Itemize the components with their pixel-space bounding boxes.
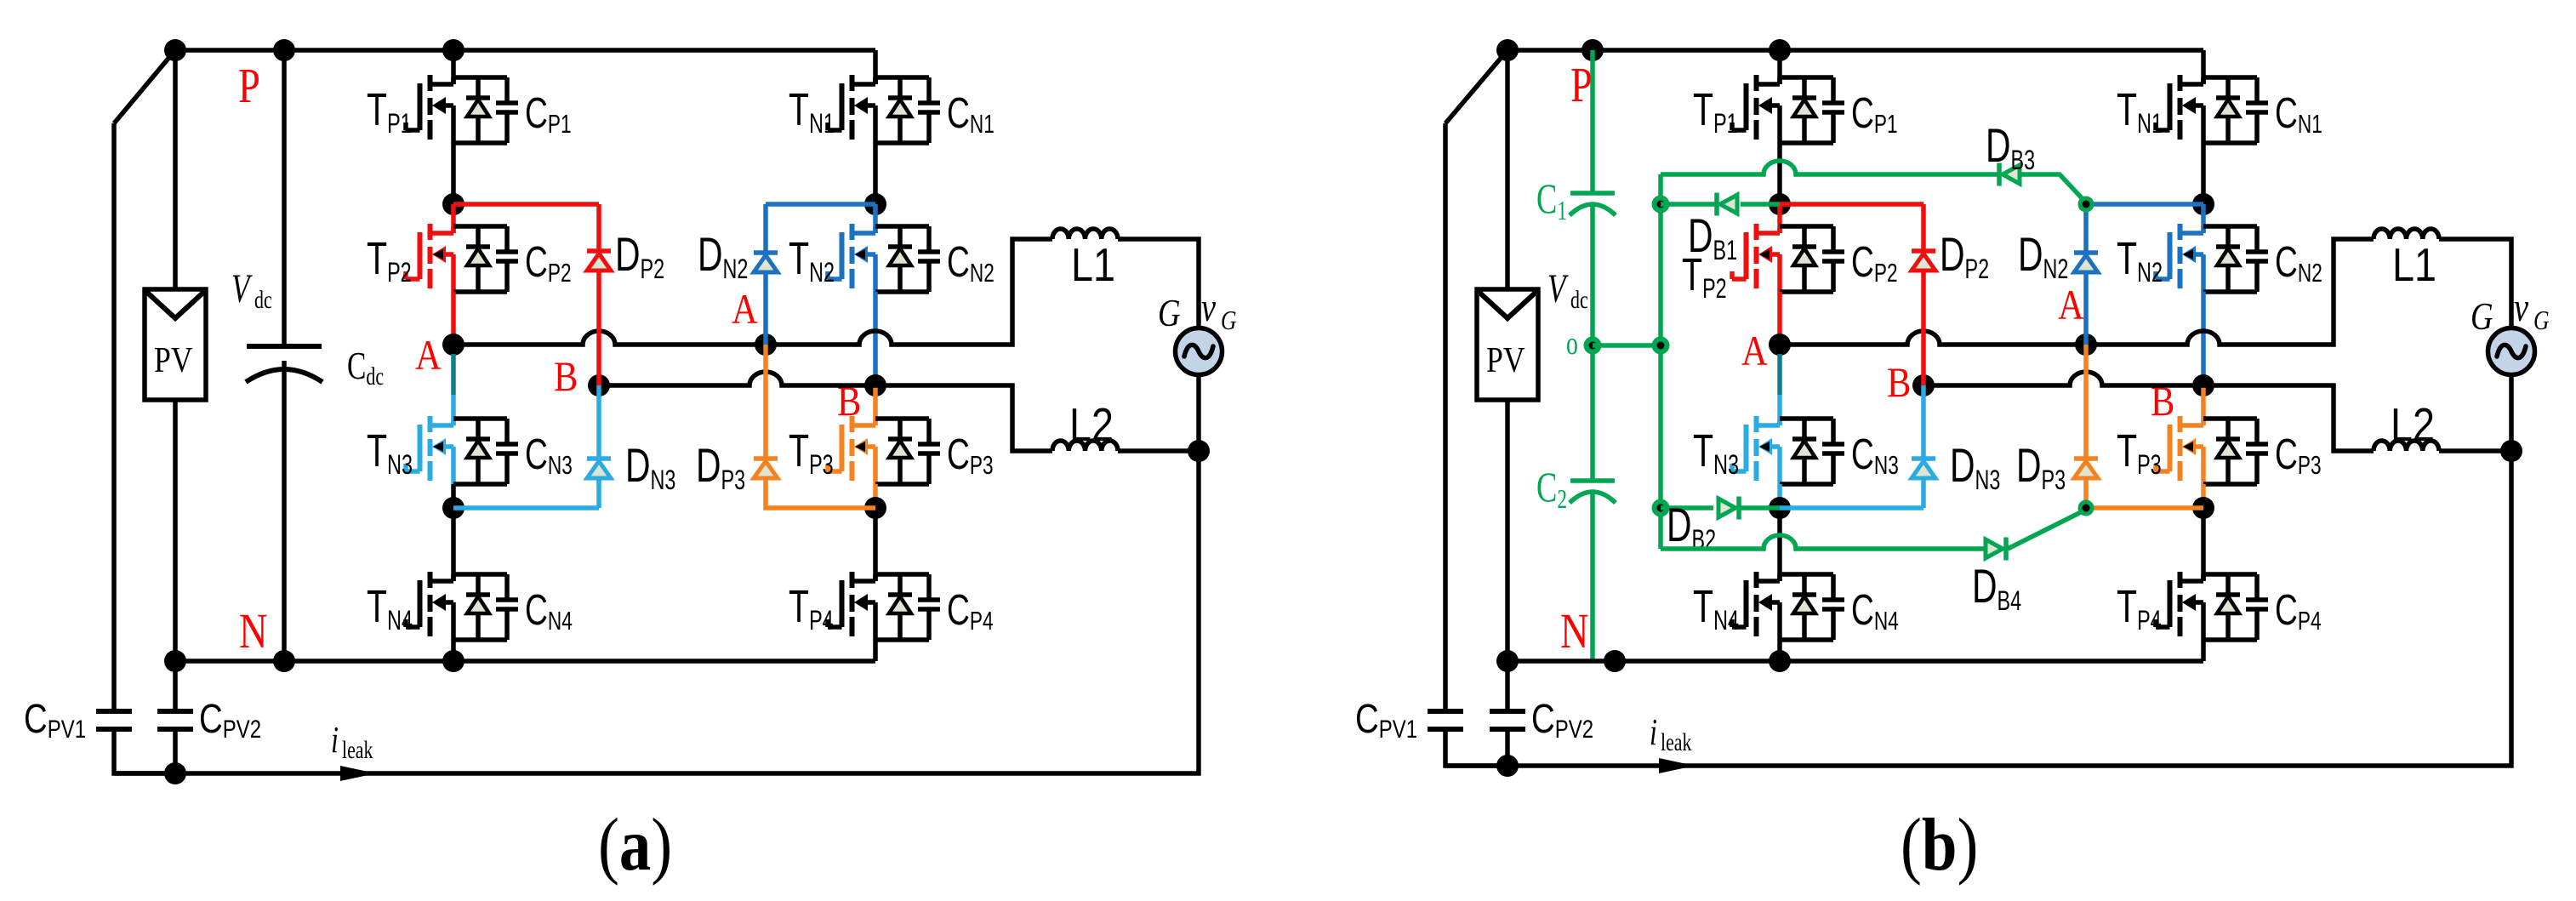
wire T_P1 drain (b) <box>1777 50 1782 84</box>
wire D_P2 to B (red) (a) <box>596 271 601 385</box>
svg-text:leak: leak <box>1661 728 1692 756</box>
wire T_N1 drain (a) <box>873 77 878 84</box>
wire T_P2 source to A (red) (a) <box>451 292 456 345</box>
wire T_N3 source to node (a) <box>451 484 456 508</box>
wire D_N2 branch (blue) (a) <box>766 202 875 207</box>
svg-text:N: N <box>239 604 268 659</box>
node A-rail at D junction (a) <box>755 334 777 356</box>
node B left (a) <box>588 374 610 396</box>
wire L2 to vG junction (a) <box>1118 448 1199 453</box>
diode D_N2 (b) <box>2018 229 2098 284</box>
svg-text:V: V <box>1547 267 1569 312</box>
svg-text:V: V <box>231 267 253 312</box>
transistor TN3 (a) <box>367 416 453 484</box>
body diode of TP1 (a) <box>466 77 490 143</box>
node N at T column (a) <box>442 650 464 672</box>
wire clamp bus vertical (b) <box>1658 174 1663 549</box>
transistor TP3 (b) <box>2117 416 2203 484</box>
body diode of TN4 (b) <box>1792 574 1816 640</box>
transistor TP1 (a) <box>367 75 453 143</box>
capacitor C_PV1 (a) <box>24 697 132 744</box>
svg-text:dc: dc <box>1570 286 1588 314</box>
wire A to T_N3 teal overlap (a) <box>451 354 456 395</box>
capacitor CP4 (b) <box>2246 574 2322 640</box>
svg-text:o: o <box>1566 326 1578 362</box>
wire cell frame TP1 (a) <box>453 77 507 143</box>
wire T_P4 drain (b) <box>2201 508 2206 581</box>
capacitor C1 (b) <box>1536 176 1616 226</box>
wire D_N2 to A (blue) (b) <box>2083 272 2089 345</box>
body diode of TP1 (b) <box>1792 77 1816 143</box>
diode D_N2 (a) <box>698 229 778 284</box>
wire rail B to L2 (a) <box>599 372 1052 451</box>
svg-text:i: i <box>331 720 339 761</box>
capacitor CN4 (b) <box>1822 574 1899 640</box>
wire cell frame TN2 (a) <box>875 226 929 292</box>
wire T_N4 source to N (a) <box>451 640 456 661</box>
capacitor CN3 (b) <box>1822 419 1899 484</box>
wire node o to bus (b) <box>1593 343 1661 348</box>
wire cell frame TP4 (a) <box>875 574 929 640</box>
wire cell frame TP3 (b) <box>2203 419 2257 484</box>
transistor TP3 (a) <box>789 416 875 484</box>
source v_G (b) <box>2488 328 2535 375</box>
wire D_P3 branch (orange) (a) <box>763 345 768 457</box>
svg-text:A: A <box>2058 282 2084 329</box>
capacitor C_dc (a) <box>246 344 384 391</box>
svg-text:i: i <box>1650 712 1657 753</box>
svg-text:v: v <box>1201 285 1217 330</box>
wire cell frame TP2 (a) <box>453 226 507 292</box>
wire D_P3 branch (orange) (b) <box>2083 345 2089 457</box>
transistor TN1 (a) <box>789 75 875 143</box>
node B left (b) <box>1912 374 1935 396</box>
capacitor CN2 (b) <box>2246 226 2322 292</box>
wire D_N3 branch (cyan) (a) <box>453 478 599 508</box>
capacitor CP1 (b) <box>1822 77 1898 143</box>
wire PV to N rail (b) <box>1505 400 1510 661</box>
svg-text:PV: PV <box>154 340 193 379</box>
wire D_N3 branch (cyan) (b) <box>1780 478 1923 508</box>
node P (a) <box>273 39 295 61</box>
transistor TN2 (b) <box>2117 224 2203 292</box>
wire T_N1 source to node (a) <box>873 143 878 204</box>
body diode of TP3 (b) <box>2216 419 2240 484</box>
diode D_N3 (a) <box>587 440 675 495</box>
transistor TP4 (a) <box>789 572 875 640</box>
wire T_P4 source to N (b) <box>2201 640 2206 661</box>
wire rail B to L2 (b) <box>1923 372 2374 451</box>
diode D_P2 (a) <box>587 229 664 284</box>
node N mid (b) <box>1604 650 1626 672</box>
diode D_N3 (b) <box>1912 440 2000 495</box>
wire rail A to L1 (a) <box>453 239 1052 345</box>
wire T_P4 drain (a) <box>873 508 878 581</box>
wire cell frame TP1 (b) <box>1780 77 1833 143</box>
node T_N3/T_N4 (b) <box>1769 497 1791 519</box>
svg-text:B: B <box>554 354 578 401</box>
capacitor CP3 (b) <box>2246 419 2322 484</box>
node T_P3/T_P4 (b) <box>2192 497 2214 519</box>
svg-text:leak: leak <box>342 736 373 764</box>
diode D_B1 (b) <box>1688 193 1737 265</box>
transistor TN1 (b) <box>2117 75 2203 143</box>
wire T_P4 source to N (a) <box>873 640 878 661</box>
wire ground return rail i_leak (a) <box>114 374 1199 773</box>
capacitor CP1 (a) <box>496 77 572 143</box>
body diode of TP4 (a) <box>888 574 912 640</box>
capacitor C_PV2 (b) <box>1490 661 1593 766</box>
inductor L2 (a) <box>1052 398 1118 451</box>
wire cell frame TN1 (b) <box>2203 77 2257 143</box>
wire cell frame TN3 (a) <box>453 419 507 484</box>
wire D_B3 line (b) <box>1661 161 2086 202</box>
node A-rail at D junction (b) <box>2075 334 2097 356</box>
wire D_P2 branch (red) (a) <box>453 204 599 251</box>
node T_P3/T_P4 (a) <box>864 497 886 519</box>
body diode of TN3 (a) <box>466 419 490 484</box>
wire T_P3 drain (orange) (b) <box>2201 385 2206 425</box>
node N at PV (a) <box>164 650 186 672</box>
wire rail A to L1 (b) <box>1780 239 2374 345</box>
svg-text:(a): (a) <box>598 802 672 886</box>
capacitor C_PV2 (a) <box>157 661 261 773</box>
diode D_B3 (b) <box>1986 120 2035 186</box>
transistor TN4 (a) <box>367 572 453 640</box>
wire D_P2 to B (red) (b) <box>1921 271 1926 385</box>
svg-text:G: G <box>2471 295 2493 339</box>
body diode of TN2 (a) <box>888 226 912 292</box>
wire C_dc branch (a) <box>282 50 287 661</box>
wire T_N2 source to B (blue) (b) <box>2201 292 2206 385</box>
node vG-L2 junction (b) <box>2500 440 2522 462</box>
wire D_B2 line (b) <box>1661 505 1780 510</box>
inductor L1 (b) <box>2374 229 2439 291</box>
wire ground return rail i_leak (b) <box>1445 374 2511 766</box>
diode D_B2 (b) <box>1667 497 1739 555</box>
svg-text:L2: L2 <box>2391 398 2435 450</box>
transistor TP1 (b) <box>1693 75 1780 143</box>
svg-text:P: P <box>238 59 260 113</box>
transistor TN2 (a) <box>789 224 875 292</box>
node top of T_P1 column (b) <box>1769 39 1791 61</box>
wire D_P3 to node (orange) (b) <box>2086 478 2203 508</box>
node o (b) <box>1584 337 1602 355</box>
inductor L1 (a) <box>1052 229 1118 291</box>
capacitor C2 (b) <box>1536 465 1616 515</box>
body diode of TN1 (a) <box>888 77 912 143</box>
wire T_P2 source to A (red) (b) <box>1777 292 1782 345</box>
wire T_P2 drain (red) (a) <box>451 204 456 233</box>
wire T_N2 drain (blue) (b) <box>2201 204 2206 233</box>
capacitor CN4 (a) <box>496 574 573 640</box>
body diode of TP4 (b) <box>2216 574 2240 640</box>
diode D_P3 (a) <box>696 440 778 495</box>
wire C_PV1 to bottom rail (b) <box>1445 729 1507 766</box>
wire T_P1 drain (a) <box>451 50 456 84</box>
wire T_N4 drain (a) <box>451 508 456 581</box>
wire D_B4 line (b) <box>1661 510 2086 549</box>
wire PV to N rail (a) <box>173 400 178 661</box>
PV panel (b) <box>1477 289 1538 400</box>
wire cell frame TP4 (b) <box>2203 574 2257 640</box>
svg-text:A: A <box>732 287 758 334</box>
wire cell frame TP3 (a) <box>875 419 929 484</box>
diode D_B4 (b) <box>1972 538 2021 616</box>
body diode of TN3 (b) <box>1792 419 1816 484</box>
wire L1 to vG (a) <box>1118 239 1199 328</box>
wire top rail P (a) <box>175 50 875 84</box>
body diode of TP2 (b) <box>1792 226 1816 292</box>
capacitor CN2 (a) <box>918 226 994 292</box>
body diode of TN4 (a) <box>466 574 490 640</box>
node T_N3/T_N4 (a) <box>442 497 464 519</box>
transistor TP2 (a) <box>367 224 453 292</box>
arrow i_leak (a) <box>340 766 376 781</box>
node T_N1/T_N2 (a) <box>864 193 886 215</box>
node vG-L2 junction (a) <box>1188 440 1210 462</box>
capacitor CN1 (a) <box>918 77 994 143</box>
svg-text:N: N <box>1560 604 1589 659</box>
wire D_N3 to B (cyan) (b) <box>1921 385 1926 459</box>
wire T_P3 drain (orange) (a) <box>873 385 878 425</box>
capacitor CP3 (a) <box>918 419 994 484</box>
wire T_P3 source to node (orange) (a) <box>873 484 878 508</box>
wire A to T_N3 (cyan) (a) <box>451 395 456 425</box>
PV panel (a) <box>145 289 206 400</box>
svg-text:B: B <box>1887 360 1911 407</box>
wire PV drop (a) <box>173 50 178 289</box>
node bus tap D_B2 (b) <box>1652 499 1670 517</box>
transistor TN4 (b) <box>1693 572 1780 640</box>
wire diagonal to C_PV1 (b) <box>1445 50 1507 711</box>
inductor L2 (b) <box>2374 398 2439 451</box>
wire dc-link split branch (b) <box>1590 50 1595 661</box>
svg-text:G: G <box>2533 305 2550 335</box>
node A (a) <box>442 334 464 356</box>
node C_PV2 bottom (b) <box>1496 755 1519 777</box>
node P-corner top-left (a) <box>164 39 186 61</box>
node C_PV2 bottom (a) <box>164 762 186 784</box>
capacitor CP2 (a) <box>496 226 572 292</box>
capacitor CN1 (b) <box>2246 77 2322 143</box>
wire cell frame TN4 (a) <box>453 574 507 640</box>
wire T_N4 source to N (b) <box>1777 640 1782 661</box>
node N mid (a) <box>273 650 295 672</box>
wire D_N2 branch (blue) (b) <box>2086 202 2203 207</box>
node N at T column (b) <box>1769 650 1791 672</box>
capacitor CP4 (a) <box>918 574 994 640</box>
body diode of TP3 (a) <box>888 419 912 484</box>
wire diagonal to C_PV1 (a) <box>114 50 175 711</box>
wire D_N3 to B (cyan) (a) <box>596 385 601 459</box>
svg-text:L1: L1 <box>1071 238 1115 290</box>
wire D_N2 to A (blue) (a) <box>763 272 768 345</box>
node T_P1/T_P2 (b) <box>1769 193 1791 215</box>
wire A to T_N3 (cyan) (b) <box>1777 395 1782 425</box>
transistor TP4 (b) <box>2117 572 2203 640</box>
wire cell frame TN1 (a) <box>875 77 929 143</box>
arrow i_leak (b) <box>1659 758 1695 773</box>
wire L2 to vG junction (b) <box>2439 448 2511 453</box>
transistor TP2 (b) <box>1682 224 1780 304</box>
node P (b) <box>1582 39 1604 61</box>
node P-corner top-left (b) <box>1496 39 1519 61</box>
node A (b) <box>1769 334 1791 356</box>
wire D_P2 branch (red) (b) <box>1780 204 1923 251</box>
wire C_PV1 to bottom rail (a) <box>114 729 175 773</box>
svg-text:A: A <box>415 333 442 379</box>
wire T_N4 drain (b) <box>1777 508 1782 581</box>
body diode of TP2 (a) <box>466 226 490 292</box>
svg-text:v: v <box>2514 285 2529 330</box>
wire D_P3 to node (orange) (a) <box>766 478 875 508</box>
svg-text:G: G <box>1221 305 1237 335</box>
wire A to T_N3 teal overlap (b) <box>1777 354 1782 395</box>
wire D_B1 line (b) <box>1661 202 1780 207</box>
wire N rail (b) <box>1507 659 2203 664</box>
node T_N1/T_N2 (b) <box>2192 193 2214 215</box>
node N at PV (b) <box>1496 650 1519 672</box>
diode D_P2 (b) <box>1912 229 1989 284</box>
wire L1 to vG (b) <box>2439 239 2511 328</box>
wire cell frame TN2 (b) <box>2203 226 2257 292</box>
wire top rail P (b) <box>1507 50 2203 84</box>
wire T_P1 source to node (a) <box>451 143 456 204</box>
wire T_N2 source to B (blue) (a) <box>873 292 878 385</box>
source v_G (a) <box>1176 328 1222 375</box>
diode D_P3 (b) <box>2016 440 2098 495</box>
wire cell frame TN3 (b) <box>1780 419 1833 484</box>
wire N rail (a) <box>175 659 875 664</box>
wire T_N1 drain (b) <box>2201 77 2206 84</box>
svg-text:L1: L1 <box>2392 238 2436 290</box>
svg-text:G: G <box>1158 292 1181 335</box>
svg-text:(b): (b) <box>1901 802 1978 886</box>
svg-text:P: P <box>1570 58 1593 112</box>
capacitor C_PV1 (b) <box>1355 697 1463 744</box>
wire T_P3 source to node (orange) (b) <box>2201 484 2206 508</box>
node bus tap o (b) <box>1652 337 1670 355</box>
transistor TN3 (b) <box>1693 416 1780 484</box>
node clamp junction upper (b) <box>2078 197 2094 213</box>
wire cell frame TN4 (b) <box>1780 574 1833 640</box>
node B right (a) <box>864 374 886 396</box>
wire T_N1 source to node (b) <box>2201 143 2206 204</box>
svg-text:L2: L2 <box>1069 398 1114 450</box>
capacitor CP2 (b) <box>1822 226 1898 292</box>
body diode of TN1 (b) <box>2216 77 2240 143</box>
wire T_N3 source to node (b) <box>1777 484 1782 508</box>
capacitor CN3 (a) <box>496 419 573 484</box>
svg-text:A: A <box>1741 328 1768 375</box>
node B right (b) <box>2192 374 2214 396</box>
svg-text:PV: PV <box>1486 340 1525 379</box>
wire PV drop (b) <box>1505 50 1510 289</box>
svg-text:dc: dc <box>254 286 272 314</box>
node top of T_P1 column (a) <box>442 39 464 61</box>
wire T_N2 drain (blue) (a) <box>873 204 878 233</box>
node clamp junction lower (b) <box>2078 500 2094 516</box>
wire T_P2 drain (red) (b) <box>1777 204 1782 233</box>
node bus tap D_B1 (b) <box>1652 196 1670 214</box>
wire cell frame TP2 (b) <box>1780 226 1833 292</box>
body diode of TN2 (b) <box>2216 226 2240 292</box>
wire T_P1 source to node (b) <box>1777 143 1782 204</box>
node T_P1/T_P2 (a) <box>442 193 464 215</box>
